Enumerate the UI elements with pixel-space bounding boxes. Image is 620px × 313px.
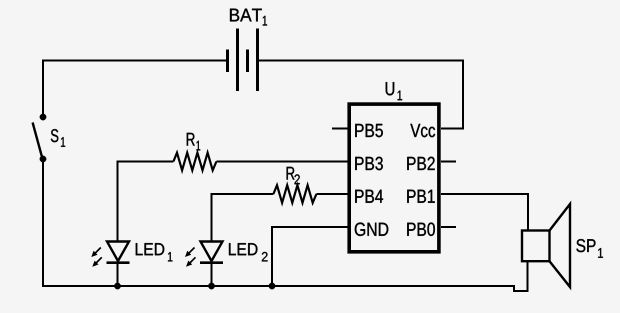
wire pin stub PB0 [441,226,456,228]
resistor R2 [273,185,316,203]
wire top rail right (battery positive to Vcc) [258,61,464,129]
resistor R1 [173,153,216,171]
wire LED2 cathode to bottom rail [211,263,213,287]
pin label PB4 [355,190,383,203]
wire top rail left (battery negative to left rail) [43,60,228,62]
LED LED1 [95,242,130,264]
wire PB1 to speaker [441,194,528,232]
pin label Vcc [410,124,435,137]
pin label PB2 [407,157,434,170]
wire R2 left lead to LED2 anode [212,194,274,243]
label S1 [51,129,65,147]
junction node LED1/bottom rail [114,283,120,289]
label SP1 [576,239,603,258]
IC U1 [349,104,439,252]
wire left rail upper (to switch top) [42,60,44,118]
wire R1 left lead to LED1 anode [118,162,174,243]
junction node LED2/bottom rail [208,283,214,289]
pin label PB5 [355,124,383,137]
pin label PB3 [355,157,383,170]
wire GND pin to bottom rail [272,227,348,286]
wire pin stub PB5 [332,128,348,130]
label LED2 [229,243,268,261]
wire bottom rail (ground rail with jog to speaker) [42,262,528,292]
label U1 [386,82,402,100]
junction node GND/bottom rail [269,283,275,289]
LED LED2 [188,242,223,264]
label R2 [287,167,300,184]
wire PB3 to R1 right lead [216,161,347,163]
speaker SP1 [522,204,570,287]
switch S1 [33,114,47,162]
pin label GND [355,223,388,236]
label BAT1 [230,9,267,26]
wire LED1 cathode to bottom rail [117,263,119,287]
pin label PB1 [407,190,434,203]
wire left rail lower (switch bottom to bottom rail) [42,159,44,287]
wire pin stub PB2 [441,161,456,163]
label R1 [187,133,200,151]
label LED1 [136,243,173,261]
wire PB4 to R2 right lead [316,193,347,195]
battery BAT1 [228,29,258,92]
pin label PB0 [407,223,435,236]
